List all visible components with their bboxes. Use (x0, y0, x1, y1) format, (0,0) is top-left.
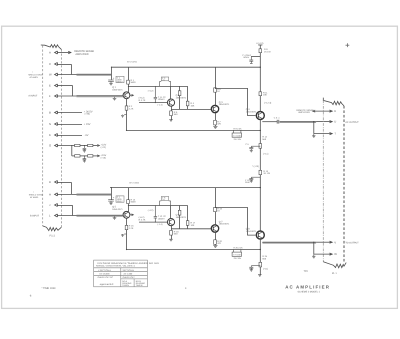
svg-text:10K: 10K (191, 224, 195, 227)
wire branch down to pin T (313, 122, 315, 134)
wire row G (57, 145, 74, 147)
svg-text:2.2K: 2.2K (129, 108, 134, 111)
svg-text:K: K (49, 133, 51, 137)
resistor R12 (259, 144, 262, 149)
svg-text:G: G (49, 144, 51, 148)
capacitor C22 (83, 156, 87, 161)
value label C2 box (161, 77, 168, 81)
svg-text:B: B (49, 111, 51, 115)
resistor R5 (170, 111, 173, 116)
svg-text:1854-0071: 1854-0071 (176, 97, 187, 100)
resistor R13 (259, 170, 262, 174)
svg-text:5600: 5600 (131, 201, 137, 204)
wire C1 stem (110, 67, 112, 80)
svg-text:OHMS VOLT DC: OHMS VOLT DC (98, 276, 114, 279)
pin W connector (55, 73, 58, 76)
svg-text:AT AMPL: AT AMPL (30, 76, 39, 79)
registration cross mark (346, 43, 350, 47)
resistor R25 feedback loop lower (233, 250, 241, 253)
svg-text:10K: 10K (191, 104, 195, 107)
svg-text:N: N (49, 122, 51, 126)
svg-text:1854-0071: 1854-0071 (219, 103, 230, 106)
svg-text:(-1.4): (-1.4) (158, 223, 163, 226)
svg-text:B+ (+22V): B+ (+22V) (127, 61, 137, 64)
capacitor C2 loop stubs (160, 81, 171, 86)
wire +22V rail (lower) (110, 187, 260, 189)
wire row C (57, 63, 71, 65)
wire interstage bottom line (171, 108, 211, 110)
wire Q3 collector up (214, 67, 216, 105)
ground output shield B (312, 254, 315, 258)
svg-text:10K: 10K (263, 94, 267, 97)
svg-text:AC 1,000: AC 1,000 (124, 273, 134, 276)
ground Q5 emitter tap (121, 234, 127, 237)
svg-text:1K 1W: 1K 1W (263, 172, 270, 175)
svg-text:C 9 100: C 9 100 (233, 253, 241, 256)
svg-text:(+15): (+15) (101, 156, 106, 159)
svg-text:T: T (334, 132, 336, 136)
svg-text:E: E (49, 84, 51, 88)
ground Q1 emitter tap (121, 115, 127, 118)
svg-text:1K 1W: 1K 1W (264, 51, 271, 54)
svg-text:A INPUT: A INPUT (28, 94, 38, 97)
wire with arrow to +15V (93, 155, 99, 157)
transistor Q3 (211, 105, 218, 112)
svg-text:(+11): (+11) (263, 153, 268, 156)
svg-text:AC AMPLIFIER: AC AMPLIFIER (285, 285, 330, 290)
resistor R9 (259, 49, 262, 53)
test point arrow Q1 collector (130, 94, 134, 96)
resistor R17 (186, 221, 189, 226)
wire elbow C down (70, 64, 72, 74)
svg-text:1854-0071: 1854-0071 (246, 230, 257, 233)
pin F connector (55, 95, 58, 98)
svg-text:A (+24): A (+24) (256, 42, 263, 45)
arrow pin U (330, 121, 333, 123)
resistor R4 (186, 101, 189, 106)
wire row N supply (57, 123, 82, 125)
wire Q4 collector to output cap (262, 121, 277, 123)
svg-text:(-1.4): (-1.4) (158, 104, 163, 107)
svg-text:approved 6-5: approved 6-5 (100, 283, 114, 286)
svg-text:W: W (49, 73, 52, 77)
resistor R3 (178, 91, 181, 96)
svg-text:PL 1: PL 1 (332, 272, 337, 275)
wire decoupling branch (251, 55, 260, 57)
wire branch down to pin W2 (313, 242, 315, 254)
wire Q7 collector up (214, 188, 216, 225)
resistor R22 (88, 144, 93, 146)
wire bias resistor R16 stem (179, 206, 181, 229)
wire Q8 collector to output (lower) (262, 241, 280, 243)
svg-text:(+22): (+22) (101, 146, 106, 149)
wire R14 stem (127, 188, 129, 212)
svg-text:1854-0071: 1854-0071 (112, 89, 123, 92)
svg-text:DC 20,000: DC 20,000 (100, 273, 111, 276)
svg-text:2.2K: 2.2K (129, 227, 134, 230)
transistor Q2 (167, 99, 174, 106)
resistor R24 (88, 155, 93, 157)
wire main vertical below Q4 (259, 120, 261, 231)
svg-text:C 6 .1: C 6 .1 (274, 117, 281, 120)
svg-text:50WV: 50WV (244, 56, 250, 59)
capacitor C10 branch (249, 266, 260, 270)
arrow pin V (330, 241, 333, 243)
svg-text:1854-0071: 1854-0071 (176, 216, 187, 219)
wire with arrow to +22V (93, 145, 99, 147)
wire shielded output line A (280, 121, 317, 123)
wire C7 stem (110, 188, 112, 200)
resistor R21 (75, 144, 80, 146)
svg-text:TO OUTPUT: TO OUTPUT (345, 242, 359, 245)
value label C1 box (116, 76, 124, 82)
svg-text:1854-0071: 1854-0071 (219, 223, 230, 226)
pin L connector (55, 214, 58, 217)
wire Q2 collector stub (170, 86, 172, 99)
svg-text:AMPLIFIER: AMPLIFIER (298, 111, 310, 114)
ground C13 (250, 181, 253, 183)
svg-text:1854-0071: 1854-0071 (112, 208, 123, 211)
shield boundary dashed line (right) (61, 50, 63, 227)
svg-text:R 4.7K: R 4.7K (139, 219, 146, 222)
resistor R19 (214, 207, 217, 211)
wire Q7 emitter down (214, 232, 216, 245)
wire to pin V (316, 241, 332, 243)
transistor Q1 (123, 92, 130, 99)
capacitor C5 branch (249, 146, 260, 150)
capacitor C4 decoupling (249, 56, 253, 63)
pin E connector (55, 84, 58, 87)
wire +22V rail (upper) (111, 66, 260, 68)
svg-text:R 25 2.2K: R 25 2.2K (233, 246, 243, 249)
arrow pin T (330, 133, 333, 135)
ground C21 (83, 151, 86, 153)
svg-text:U: U (334, 120, 336, 124)
ground C22 (83, 161, 86, 163)
wire Q6 emitter down (170, 226, 172, 239)
capacitor C7 electrolytic (108, 200, 114, 203)
cable zigzag PL1 (323, 262, 346, 268)
connector P1 boundary dashed line (left) (42, 46, 44, 226)
svg-text:A: A (49, 51, 51, 55)
wire shielded input line B upper (57, 193, 78, 195)
wire Q5 collector coupling (128, 205, 187, 207)
wire elbow D down (70, 182, 72, 194)
ground shield B (113, 216, 117, 219)
transistor Q5 (123, 211, 130, 218)
svg-text:R 8 2.2K: R 8 2.2K (233, 127, 242, 130)
ground Q6 emitter (169, 239, 173, 241)
svg-text:2KV 5%: 2KV 5% (234, 257, 242, 260)
wire main supply vertical upper (259, 45, 261, 112)
svg-text:AMPLIFIER: AMPLIFIER (75, 53, 88, 56)
svg-text:* TIME 1933: * TIME 1933 (42, 287, 56, 290)
resistor R18 (170, 230, 173, 235)
transistor Q8 (256, 231, 264, 239)
pin B connector (55, 111, 58, 114)
svg-text:C: C (49, 62, 51, 66)
resistor R15 (125, 225, 128, 229)
svg-text:C 3 100: C 3 100 (233, 134, 241, 137)
wire shielded input line B to Q5 base (57, 215, 78, 217)
svg-text:D: D (49, 180, 51, 184)
cable resistor zigzag (top of P1) (41, 45, 62, 50)
arrow pin K (330, 110, 333, 112)
svg-text:(+36): (+36) (85, 113, 90, 116)
svg-text:H: H (49, 193, 51, 197)
resistor R14 (127, 200, 130, 204)
svg-text:(+1.2): (+1.2) (148, 90, 154, 93)
cabinet dashed boundary (far right) (343, 106, 345, 263)
svg-text:F: F (49, 94, 51, 98)
pin D connector (B channel) (55, 181, 58, 184)
resistor R11 (259, 92, 262, 96)
svg-text:100WV: 100WV (158, 98, 165, 101)
svg-text:+ 15V: + 15V (84, 123, 91, 126)
wire (80, 155, 88, 157)
ground Q3 emitter (213, 126, 217, 128)
svg-text:50WV: 50WV (117, 200, 123, 203)
wire Q4 base path (215, 88, 255, 115)
wire Q2 base line (139, 102, 167, 104)
svg-text:(+12.4): (+12.4) (264, 102, 271, 105)
wire remote sense row (57, 52, 70, 54)
svg-text:TP2: TP2 (304, 270, 309, 273)
voltage readings table (94, 260, 148, 287)
ground C7 (109, 203, 113, 205)
wire Q1 emitter down (126, 99, 128, 131)
capacitor C12 interstage (154, 206, 157, 223)
svg-text:SCHEME 2 MODEL 1: SCHEME 2 MODEL 1 (298, 291, 321, 294)
wire Q5 emitter down (126, 218, 128, 249)
svg-text:SECTION B: SECTION B (123, 269, 135, 272)
pin K connector (55, 134, 58, 137)
svg-text:- 6V: - 6V (84, 134, 89, 137)
pin C connector (55, 63, 58, 66)
ground output shield A (312, 134, 315, 138)
resistor R2 (125, 106, 128, 110)
transistor Q7 (211, 225, 218, 232)
svg-text:R 4.7K: R 4.7K (139, 99, 146, 102)
transistor Q6 (167, 219, 174, 226)
svg-text:(+1.2): (+1.2) (148, 209, 154, 212)
wire Q6 base line (139, 221, 167, 223)
ground main vertical end (258, 275, 262, 277)
wire shielded input line A upper (57, 74, 78, 76)
arrow remote sense (68, 51, 71, 53)
resistor R26 (259, 262, 262, 267)
wire sense row K (313, 110, 332, 112)
pin G connector (55, 144, 58, 147)
ground Q2 emitter (169, 120, 173, 122)
capacitor C21 (83, 146, 87, 151)
resistor R23 (75, 155, 80, 157)
wire branch down (71, 146, 73, 156)
wire row J (57, 204, 72, 206)
svg-text:(+11): (+11) (263, 268, 268, 271)
value label C8 box (161, 197, 168, 201)
svg-text:SIGNAL CONDITIONS, VALUES ( ): SIGNAL CONDITIONS, VALUES ( ) (96, 265, 135, 268)
resistor R6 (214, 88, 217, 92)
wire elbow J down (72, 205, 74, 215)
resistor R1 (127, 80, 130, 84)
arrow left end (313, 110, 316, 112)
wire to pin U (316, 121, 332, 123)
ground Q7 emitter (213, 246, 217, 248)
svg-text:50WV: 50WV (117, 81, 123, 84)
svg-text:P1-2: P1-2 (50, 234, 56, 237)
cable zigzag output boundary (upper) (323, 98, 344, 106)
capacitor C13 decoupling branch (249, 177, 260, 180)
wire row K supply (57, 134, 82, 136)
svg-text:25UF: 25UF (245, 181, 251, 184)
resistor R7 (214, 120, 217, 125)
svg-text:TAKEN: TAKEN (122, 284, 129, 287)
chassis dash-dot boundary (right) (322, 100, 324, 262)
wire Q2 emitter down (170, 106, 172, 119)
transistor Q4 (256, 112, 264, 120)
wire right side vertical (187, 86, 189, 109)
svg-text:1854-0071: 1854-0071 (246, 111, 257, 114)
wire row B supply (57, 112, 82, 114)
wire Q8 base path (215, 208, 255, 236)
svg-text:100WV: 100WV (158, 217, 165, 220)
svg-text:B INPUT: B INPUT (30, 214, 40, 217)
wire bias resistor R3 stem (179, 86, 181, 109)
pin J connector (55, 204, 58, 207)
capacitor C11 interstage (154, 86, 157, 102)
svg-text:V: V (334, 240, 336, 244)
svg-text:TAKEN: TAKEN (136, 284, 143, 287)
pin A connector (55, 51, 58, 54)
wire (80, 145, 88, 147)
wire R1 stem (127, 67, 129, 92)
wire row D (57, 181, 71, 183)
svg-text:OHMS VOLT: OHMS VOLT (123, 276, 136, 279)
wire main vertical below Q8 (259, 239, 261, 275)
resistor R16 (178, 210, 181, 215)
resistor R8 feedback loop (233, 130, 241, 133)
ground C10 (250, 270, 253, 272)
svg-text:K: K (334, 109, 336, 113)
test point arrow Q5 collector (130, 214, 134, 216)
wire interstage bottom line lower (171, 228, 211, 230)
arrow pin W2 (330, 253, 333, 255)
wire feedback line (upper) (127, 129, 261, 131)
wire Q6 collector stub (170, 206, 172, 219)
wire feedback line (lower) (127, 249, 261, 251)
capacitor C8 loop stubs (160, 201, 171, 206)
value label C7 box (116, 196, 124, 202)
wire right side vertical lower (187, 206, 189, 229)
svg-text:AC OUTPUT: AC OUTPUT (345, 121, 359, 124)
svg-text:B+ (+22V): B+ (+22V) (130, 181, 140, 184)
resistor R20 (214, 240, 217, 245)
node +24V terminal (258, 44, 262, 46)
wire shielded output line B (263, 242, 317, 244)
svg-text:AT AMPL: AT AMPL (30, 196, 39, 199)
wire elbow E down (72, 86, 74, 97)
cable zigzag P1 bottom (43, 226, 62, 231)
svg-text:W: W (334, 252, 337, 256)
wire shielded input line A to Q1 base (57, 95, 78, 97)
svg-text:* (+23): * (+23) (252, 165, 259, 168)
capacitor C1 electrolytic (108, 80, 114, 83)
svg-text:2KV 5%: 2KV 5% (234, 138, 242, 141)
svg-text:5600: 5600 (131, 81, 137, 84)
svg-text:L SECTION A: L SECTION A (98, 269, 111, 272)
ground shield A (113, 97, 117, 100)
ground C5 (250, 150, 253, 152)
wire Q3 emitter down (214, 113, 216, 127)
pin H connector (55, 193, 58, 196)
wire Q1 collector coupling (128, 85, 187, 87)
capacitor C6 output coupling (277, 120, 279, 124)
wire row E (57, 85, 72, 87)
pin N connector (55, 123, 58, 126)
wire row G lower branch (72, 155, 75, 157)
ground C1 (109, 83, 113, 85)
